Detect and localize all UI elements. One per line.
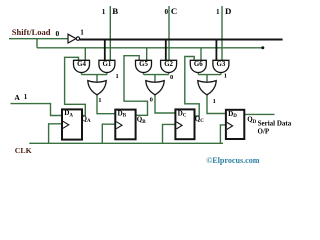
svg-text:G2: G2 xyxy=(164,61,173,68)
svg-text:1: 1 xyxy=(102,8,106,16)
svg-text:1: 1 xyxy=(98,97,101,104)
svg-text:Serial Data: Serial Data xyxy=(258,120,292,128)
svg-text:1: 1 xyxy=(80,29,84,37)
svg-text:G4: G4 xyxy=(77,61,86,68)
svg-text:G5: G5 xyxy=(139,61,148,68)
svg-text:Shift/Load: Shift/Load xyxy=(12,27,51,37)
svg-text:0: 0 xyxy=(56,29,60,38)
svg-text:©Elprocus.com: ©Elprocus.com xyxy=(206,156,260,165)
svg-text:0: 0 xyxy=(165,8,169,16)
svg-text:CLK: CLK xyxy=(15,146,32,155)
svg-text:G3: G3 xyxy=(216,61,225,68)
svg-text:A: A xyxy=(14,93,20,102)
svg-text:G1: G1 xyxy=(102,61,111,68)
svg-text:1: 1 xyxy=(224,73,227,80)
svg-text:B: B xyxy=(112,6,118,16)
svg-text:1: 1 xyxy=(216,8,220,16)
svg-text:G6: G6 xyxy=(194,61,203,68)
svg-text:C: C xyxy=(171,6,177,16)
svg-text:1: 1 xyxy=(116,73,119,80)
svg-text:0: 0 xyxy=(150,96,153,103)
svg-text:O/P: O/P xyxy=(258,127,270,135)
svg-text:1: 1 xyxy=(213,98,216,105)
svg-text:1: 1 xyxy=(24,93,28,101)
svg-text:0: 0 xyxy=(170,74,173,81)
svg-text:D: D xyxy=(225,6,231,16)
